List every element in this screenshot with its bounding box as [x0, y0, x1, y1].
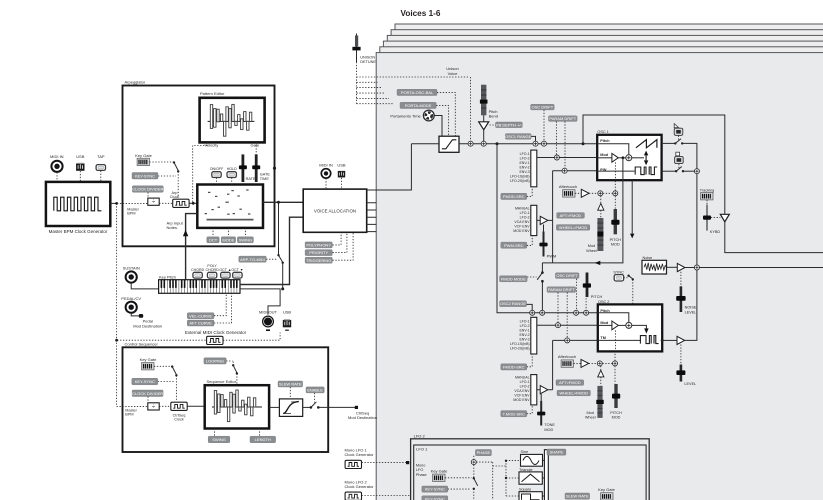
svg-text:LEVEL: LEVEL	[685, 310, 697, 314]
svg-text:Key Gate: Key Gate	[135, 153, 152, 158]
pill CLOCK DIVIDER (arp)	[132, 186, 163, 193]
tone mod amp triangle	[540, 386, 548, 394]
svg-text:Master BPM Clock Generator: Master BPM Clock Generator	[49, 229, 108, 234]
arp clock pulse box	[170, 191, 189, 208]
pill WHEEL>FMOD (osc1)	[556, 225, 589, 231]
svg-text:CLOCK DIVIDER: CLOCK DIVIDER	[132, 187, 163, 192]
osc2 fmod mux	[531, 317, 537, 354]
box: Sequence Editor	[205, 385, 269, 428]
wire: VA bus into glide box	[411, 143, 439, 145]
svg-text:Square: Square	[519, 488, 531, 492]
sum: osc2 unison	[540, 310, 545, 315]
svg-text:Mono: Mono	[416, 464, 426, 468]
pwm manual slider	[539, 232, 556, 259]
pill PARAM DRIFT (osc2)	[547, 287, 576, 293]
pill KEY-SYNC (arp)	[132, 173, 158, 180]
noise level slider	[680, 272, 682, 287]
pill LOOPING	[204, 358, 226, 364]
wire: VA pitch out to portamento bus	[367, 144, 412, 190]
svg-text:LEVEL: LEVEL	[684, 382, 696, 386]
wire: unison detune dashed bundle	[357, 62, 469, 104]
voice sheet 4	[387, 35, 823, 500]
pill PRIORITY	[305, 250, 332, 256]
pitch bend wheel	[480, 85, 498, 119]
key gate icon (ctrlseq)	[140, 357, 157, 370]
osc1 pwm mux	[531, 205, 537, 235]
pattern editor velocity bars	[210, 104, 251, 136]
sequence editor bars	[214, 390, 255, 422]
svg-text:AFT>FMOD: AFT>FMOD	[560, 213, 582, 218]
MIDI IN jack (master clock)	[50, 154, 64, 172]
svg-text:POLY: POLY	[207, 264, 217, 268]
svg-text:MANUAL: MANUAL	[515, 376, 530, 380]
wire: arp out to voice allocation	[263, 201, 303, 203]
svg-text:NOISE: NOISE	[685, 306, 697, 310]
svg-text:MOD ENV: MOD ENV	[513, 398, 530, 402]
box: LFO 1	[414, 445, 646, 500]
svg-text:Aftertouch: Aftertouch	[558, 354, 576, 359]
wire: notes box to pills	[213, 228, 245, 237]
svg-text:OCT ▲: OCT ▲	[219, 268, 231, 272]
wire: VA jacks	[326, 178, 342, 189]
pill AFT>FMOD (osc2)	[556, 380, 584, 386]
voice sheet 1 (front panel)	[376, 53, 823, 500]
box: VOICE ALLOCATION	[303, 189, 367, 232]
pill OSC DRIFT (osc2)	[555, 273, 579, 279]
pill SWING	[237, 237, 253, 243]
svg-text:LFO-2: LFO-2	[520, 215, 530, 219]
sum: lfo phase	[471, 460, 476, 465]
sum: osc1 mix	[694, 169, 699, 174]
pill VEL-CURVE	[187, 313, 214, 319]
hold button	[227, 167, 237, 178]
wire: keyboard to midi out	[240, 289, 280, 315]
svg-text:SLEW RATE: SLEW RATE	[566, 494, 589, 499]
sum: osc2 range	[530, 310, 535, 315]
wire: pwm chain up to osc1 PW	[553, 171, 598, 263]
svg-text:PORTA-OSC-BAL: PORTA-OSC-BAL	[401, 90, 434, 95]
switch: fmod mode	[527, 276, 537, 278]
svg-text:PB DEPTH +/-: PB DEPTH +/-	[496, 122, 523, 127]
svg-text:Mod: Mod	[588, 244, 595, 248]
key gate icon (lfo)	[431, 469, 448, 482]
sum: osc2 pitch manual	[584, 310, 589, 315]
box: OSC 1	[597, 130, 661, 180]
pill PHASE	[475, 450, 491, 456]
junction on arp border (gate bus)	[273, 167, 276, 170]
mono lfo1 clock generator	[345, 447, 375, 468]
svg-text:LFO-1: LFO-1	[520, 319, 530, 323]
aftertouch amp (osc2)	[581, 359, 589, 367]
svg-text:OSC 2: OSC 2	[598, 300, 609, 304]
svg-text:TRIGGERING: TRIGGERING	[306, 258, 331, 263]
aftertouch (osc2)	[558, 354, 576, 367]
usb jack (out)	[283, 309, 292, 330]
pill WHEEL>FMOD (osc2)	[557, 390, 590, 396]
wire: master bpm dashed bus down	[116, 203, 118, 406]
wire: osc1 mix down to noise sum	[696, 174, 698, 265]
svg-text:FMOD-SRC: FMOD-SRC	[503, 365, 525, 370]
pitch mod slider (osc2)	[610, 366, 622, 420]
svg-text:PEDAL/CV: PEDAL/CV	[121, 296, 141, 301]
svg-text:MOD: MOD	[612, 416, 621, 420]
switch: key-sync (arp)	[150, 161, 174, 163]
pill SLEW RATE (ctrlseq)	[278, 381, 303, 387]
osc2 tone mod source list	[513, 376, 530, 403]
svg-text:LFO-1: LFO-1	[520, 380, 530, 384]
poly chord button	[206, 264, 220, 278]
svg-text:AFT CURVE: AFT CURVE	[189, 321, 212, 326]
svg-text:SYNC: SYNC	[613, 270, 624, 274]
sum: noise mix	[694, 265, 699, 270]
wire: pedal to mod destination	[131, 313, 139, 316]
svg-text:ARP-TO-MIDI: ARP-TO-MIDI	[240, 257, 265, 262]
svg-text:SUSTAIN: SUSTAIN	[123, 266, 140, 271]
svg-text:PWM-SRC: PWM-SRC	[504, 243, 524, 248]
box: Pattern Editor	[200, 91, 265, 142]
svg-text:Wheel: Wheel	[585, 416, 596, 420]
svg-text:Tracking: Tracking	[700, 188, 714, 192]
svg-text:LFO 1: LFO 1	[416, 446, 428, 451]
pill KEY-SYNC (ctrlseq)	[132, 378, 158, 385]
svg-text:Mod: Mod	[587, 411, 594, 415]
svg-text:BPM: BPM	[125, 413, 133, 417]
aftertouch amp (osc1)	[581, 189, 589, 197]
svg-text:CHORD: CHORD	[191, 268, 205, 272]
svg-text:VCF ENV: VCF ENV	[514, 394, 530, 398]
svg-text:Key Pitch: Key Pitch	[159, 274, 176, 279]
key gate icon (lfo right)	[598, 487, 615, 500]
osc1 pulse output + switch	[662, 170, 676, 172]
svg-text:OCT ▼: OCT ▼	[231, 268, 243, 272]
box: Control Sequencer outer	[123, 347, 329, 452]
svg-text:ENABLE: ENABLE	[307, 388, 323, 393]
svg-text:MODE: MODE	[222, 237, 234, 242]
pill OSC1 RANGE	[505, 134, 532, 140]
svg-text:Mod Destination: Mod Destination	[348, 415, 377, 420]
svg-text:LFO-2: LFO-2	[520, 385, 530, 389]
pill SHAPE	[547, 449, 566, 455]
svg-text:LFO 2: LFO 2	[414, 434, 426, 439]
wire: curve pills to keyboard	[214, 293, 232, 323]
wire: jacks to clock box	[57, 171, 101, 182]
portamento glide box	[439, 136, 459, 152]
osc2 level slider	[680, 345, 682, 365]
svg-text:MIDI IN: MIDI IN	[50, 154, 64, 159]
wire: divider to arp clock	[159, 202, 173, 204]
slew limiter box (ctrlseq)	[279, 399, 302, 417]
svg-text:ENV-3: ENV-3	[519, 337, 529, 341]
pill PORTA-MODE	[400, 102, 436, 108]
unison detune slider	[352, 34, 376, 64]
sum: pitch bend	[481, 141, 486, 146]
pill SLEW RATE (lfo)	[565, 493, 590, 499]
svg-text:PARAM DRIFT: PARAM DRIFT	[548, 287, 575, 292]
sync button	[613, 270, 624, 281]
tone mod manual slider	[537, 401, 555, 432]
svg-text:Control Sequencer: Control Sequencer	[125, 341, 159, 346]
svg-text:Key Gate: Key Gate	[140, 357, 157, 362]
svg-text:PARAM DRIFT: PARAM DRIFT	[549, 116, 576, 121]
svg-text:Gate: Gate	[251, 143, 260, 148]
chord button	[191, 268, 205, 278]
kybd tracking slider	[703, 205, 720, 234]
sum: aft pitch mod (osc2)	[597, 361, 602, 366]
svg-text:Portamento Time: Portamento Time	[390, 113, 421, 118]
svg-text:Phase: Phase	[416, 473, 427, 477]
svg-text:FMOD-SRC: FMOD-SRC	[503, 194, 525, 199]
switch: sync to osc2	[624, 277, 628, 279]
svg-text:TAP: TAP	[97, 154, 105, 159]
wire: ctrlseq mod out	[318, 406, 355, 408]
svg-text:PHASE: PHASE	[477, 450, 491, 455]
pill PORTA-OSC-BAL	[397, 89, 437, 95]
svg-text:PWM: PWM	[547, 253, 557, 258]
svg-text:SHAPE: SHAPE	[550, 450, 564, 455]
pill KEY-SYNC 2 (lfo, clipped)	[422, 496, 448, 500]
svg-text:LFO: LFO	[416, 468, 423, 472]
svg-text:SLEW RATE: SLEW RATE	[279, 382, 302, 387]
pill AFT>FMOD (osc1)	[557, 213, 585, 219]
USB jack (master clock)	[76, 154, 85, 171]
key gate icon (arp)	[135, 153, 152, 166]
pill T.MOD-SRC	[501, 411, 527, 417]
mod wheel (osc2)	[585, 386, 604, 420]
wire: tone mod chain up to osc2 TM	[553, 340, 598, 389]
svg-text:Mod: Mod	[600, 153, 608, 157]
svg-text:Triangle: Triangle	[519, 468, 533, 472]
switch: lfo key sync	[445, 465, 474, 478]
box: arp held notes display	[197, 185, 263, 228]
wire: keyboard to voice allocation	[240, 217, 303, 284]
svg-text:TONE: TONE	[544, 423, 555, 427]
svg-text:Sequence Editor: Sequence Editor	[207, 379, 237, 384]
pill OCT	[207, 237, 219, 243]
svg-text:MOD ENV: MOD ENV	[513, 229, 530, 233]
svg-text:PITCH: PITCH	[610, 411, 622, 415]
TAP button	[96, 154, 105, 171]
pill PARAM DRIFT (osc1)	[549, 116, 578, 122]
pill MODE	[221, 237, 235, 243]
wire: top tracking bus	[583, 115, 823, 253]
svg-text:LFO-2S(inB): LFO-2S(inB)	[510, 346, 530, 350]
svg-text:Bend: Bend	[489, 114, 498, 119]
svg-text:T.MOD-SRC: T.MOD-SRC	[503, 411, 525, 416]
osc2 amp triangle	[677, 336, 685, 344]
aftertouch (osc1)	[559, 184, 577, 197]
svg-text:DETUNE: DETUNE	[360, 60, 376, 64]
osc2 tone mod mux	[531, 375, 537, 405]
wheel amp small triangle (osc1)	[598, 203, 604, 210]
pitch mod slider (osc1)	[610, 196, 622, 247]
svg-text:TM: TM	[600, 336, 605, 340]
voice sheet 5	[391, 30, 823, 500]
switch: looping	[226, 361, 233, 365]
svg-text:SWING: SWING	[239, 237, 253, 242]
osc1 fmod source list	[510, 152, 530, 183]
svg-text:PITCH: PITCH	[610, 238, 622, 242]
wire: pitch bus	[459, 143, 597, 145]
noise generator	[642, 256, 667, 274]
svg-text:OSC2 RANGE: OSC2 RANGE	[500, 301, 527, 306]
wire: osc2 output	[661, 339, 664, 342]
pill OSC2 RANGE	[500, 301, 527, 307]
svg-text:LOOPING: LOOPING	[206, 359, 224, 364]
svg-text:OSC 1: OSC 1	[597, 130, 608, 134]
svg-text:ENV-1: ENV-1	[519, 161, 529, 165]
wire: knob to glide box	[434, 116, 442, 137]
sum: osc1 pw	[562, 168, 567, 173]
svg-text:Pitch: Pitch	[600, 139, 610, 143]
voice sheet 2	[380, 47, 823, 500]
svg-text:OSC DRIFT: OSC DRIFT	[532, 105, 554, 110]
svg-text:VCA ENV: VCA ENV	[514, 220, 530, 224]
pill TRIGGERING	[305, 257, 332, 263]
pill LENGTH	[250, 436, 276, 443]
pill ARP-TO-MIDI	[239, 256, 266, 262]
box: Master BPM Clock Generator	[46, 182, 110, 234]
pill FMOD-SRC (osc1)	[501, 193, 527, 199]
saw wave selector icon	[674, 124, 683, 136]
svg-text:MOD: MOD	[611, 242, 620, 246]
rate slider	[239, 154, 256, 182]
svg-text:RATE: RATE	[246, 177, 256, 181]
svg-text:Mod: Mod	[600, 321, 608, 325]
wheel amp small triangle (osc2)	[598, 370, 604, 377]
svg-text:WHEEL>FMOD: WHEEL>FMOD	[560, 391, 588, 396]
svg-text:USB: USB	[76, 154, 85, 159]
mod wheel (osc1)	[586, 218, 603, 253]
usb jack (VA)	[337, 163, 346, 178]
svg-text:LFO-1S(inB): LFO-1S(inB)	[510, 342, 530, 346]
svg-text:KYBD: KYBD	[710, 230, 721, 234]
svg-text:MANUAL: MANUAL	[515, 206, 530, 210]
triangle shape box	[519, 468, 542, 484]
square shape box	[519, 488, 542, 500]
gate time slider	[252, 154, 270, 182]
mono lfo2 clock generator	[345, 479, 375, 500]
switch: enable	[303, 406, 311, 408]
svg-text:Key Gate: Key Gate	[598, 487, 615, 492]
pill POLYPHONY	[305, 242, 332, 248]
sum: osc2 tm	[565, 338, 570, 343]
tracking icon	[700, 188, 714, 200]
pwm amp triangle	[540, 216, 548, 224]
pill PWM-SRC	[501, 242, 527, 248]
svg-text:Mod Destination: Mod Destination	[133, 323, 162, 328]
svg-text:Arpeggiator: Arpeggiator	[125, 79, 146, 84]
svg-text:WHEEL>FMOD: WHEEL>FMOD	[559, 225, 587, 230]
wire: arp clock to notes box	[189, 202, 197, 204]
voice sheet 6 (back)	[395, 24, 823, 500]
svg-text:KEY-SYNC: KEY-SYNC	[135, 379, 155, 384]
osc1 saw output + S/H switch	[662, 142, 675, 144]
svg-text:BPM: BPM	[127, 212, 135, 216]
sum: aft pitch mod (osc1)	[598, 191, 603, 196]
svg-text:Voices 1-6: Voices 1-6	[401, 9, 441, 18]
wire: osc1 out crossmod down-left	[542, 158, 623, 310]
wire: lfo1 clock dashed	[362, 462, 472, 464]
sum: osc1 range	[533, 141, 538, 146]
svg-text:VEL-CURVE: VEL-CURVE	[189, 313, 212, 318]
svg-text:KEY-SYNC: KEY-SYNC	[425, 487, 445, 492]
wire: arp input notes from keyboard	[186, 214, 198, 280]
svg-text:GATE: GATE	[260, 173, 271, 177]
wire: editor to slew	[269, 406, 279, 408]
midi out jack	[259, 309, 278, 330]
svg-text:PRIORITY: PRIORITY	[309, 250, 328, 255]
svg-text:Voice: Voice	[448, 71, 459, 76]
svg-text:Wheel: Wheel	[586, 249, 597, 253]
pill KEY-SYNC (lfo)	[422, 486, 448, 492]
svg-text:OCT: OCT	[209, 237, 218, 242]
pill SWING (ctrlseq)	[208, 436, 230, 443]
svg-text:External MIDI Clock Generator: External MIDI Clock Generator	[185, 330, 247, 335]
wire: velocity dashed to arp clock node	[193, 142, 207, 202]
svg-text:CLOCK DIVIDER: CLOCK DIVIDER	[132, 391, 163, 396]
wire: unison voice dashed down	[470, 77, 472, 141]
svg-text:MIDI OUT: MIDI OUT	[259, 309, 278, 314]
svg-text:ENV-3: ENV-3	[519, 170, 529, 174]
svg-text:Notes: Notes	[167, 225, 177, 230]
svg-text:ON/OFF: ON/OFF	[210, 167, 224, 171]
svg-text:VCF ENV: VCF ENV	[514, 224, 530, 228]
svg-text:LFO-2S(inB): LFO-2S(inB)	[510, 179, 530, 183]
svg-text:LFO-1: LFO-1	[520, 152, 530, 156]
wire: phase sum to shapes	[476, 460, 520, 500]
svg-text:POLYPHONY: POLYPHONY	[306, 243, 331, 248]
svg-text:LFO-2: LFO-2	[520, 324, 530, 328]
svg-text:ENV-2: ENV-2	[519, 333, 529, 337]
wire: osc1 out arrow stub	[631, 180, 633, 234]
svg-text:AFT>FMOD: AFT>FMOD	[559, 380, 581, 385]
svg-text:CHORD: CHORD	[206, 268, 220, 272]
pill FMOD-SRC (osc2)	[501, 364, 527, 370]
svg-text:LFO-2: LFO-2	[520, 157, 530, 161]
svg-text:Clock Generator: Clock Generator	[345, 484, 375, 489]
on/off button	[210, 167, 224, 178]
svg-text:FMOD MODE: FMOD MODE	[501, 276, 526, 281]
wire: buttons to notes box	[217, 178, 232, 185]
sum: osc2 fmod	[556, 323, 561, 328]
svg-text:ENV-2: ENV-2	[519, 166, 529, 170]
wire: gate dashed to gate-time slider	[255, 142, 257, 154]
pb depth amp triangle	[483, 115, 485, 121]
svg-text:KEY-SYNC: KEY-SYNC	[135, 173, 155, 178]
pill ENABLE	[306, 387, 324, 393]
osc1 pwm source list	[513, 206, 530, 233]
sine shape box	[521, 450, 543, 466]
wire+switch: arp-to-midi	[278, 202, 280, 255]
clock divider box (arp)	[147, 192, 149, 196]
svg-text:Aftertouch: Aftertouch	[559, 184, 577, 189]
svg-text:TIME: TIME	[260, 177, 270, 181]
svg-text:LFO-1: LFO-1	[520, 211, 530, 215]
noise amp triangle	[667, 266, 678, 268]
svg-text:ENV-1: ENV-1	[519, 328, 529, 332]
svg-text:Clock Generator: Clock Generator	[345, 452, 375, 457]
midi in jack (VA)	[319, 163, 333, 178]
svg-text:USB: USB	[283, 309, 292, 314]
wire: editor to pills	[215, 429, 260, 437]
sum: osc1 fmod	[554, 155, 559, 160]
svg-text:UNISON: UNISON	[360, 55, 375, 59]
pill AFT CURVE	[187, 320, 214, 326]
pedal/cv jack	[121, 296, 141, 313]
wire: ctrlseq clock to editor	[187, 405, 205, 407]
lfo shape selector bus	[544, 450, 548, 500]
wire: VA pills dashed	[333, 232, 354, 260]
